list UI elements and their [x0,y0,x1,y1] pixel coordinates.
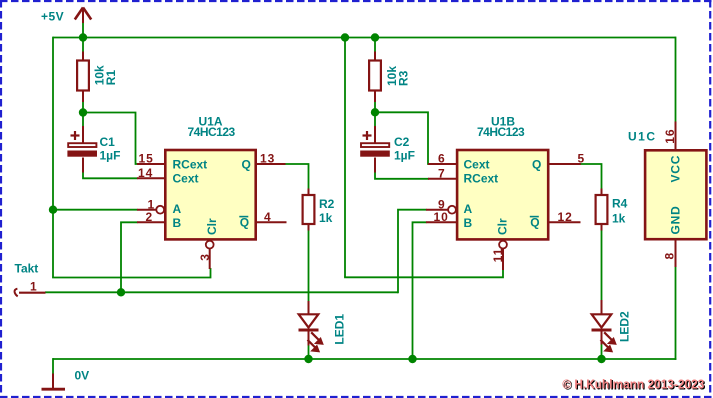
svg-text:7: 7 [438,166,445,180]
svg-text:U1C: U1C [628,130,657,144]
wire Clr net U1B [344,269,503,277]
ground 0V symbol [42,374,66,390]
svg-text:16: 16 [663,128,677,143]
svg-text:Q: Q [532,157,541,171]
svg-text:R3: R3 [396,70,410,86]
svg-text:GND: GND [669,205,683,234]
capacitor C2 [360,126,415,173]
pin 2 (B) U1A [137,210,165,224]
port Takt input pin 1 [14,280,45,297]
label +5V [41,10,64,24]
svg-text:12: 12 [558,210,573,224]
node LED2/0V junction [597,355,605,363]
node LED1/0V junction [304,355,312,363]
wire A input U1A to +5V rail [53,209,138,211]
wire node to C2 top [374,112,376,127]
pin 5 (Q) U1B [549,152,585,166]
node Takt/B junction [117,288,125,296]
pin 14 (Cext) U1A [137,166,165,180]
IC U1C power unit body [628,130,706,240]
pin 13 (Q) U1A [256,152,286,166]
op-amp U1B body [457,115,548,240]
svg-text:VCC: VCC [669,155,683,183]
svg-text:B: B [173,216,182,230]
svg-text:Cext: Cext [173,171,199,185]
label 0V [75,369,90,383]
svg-text:Takt: Takt [15,262,39,276]
svg-text:Q: Q [242,157,251,171]
wire LED2 to 0V rail [601,344,603,359]
svg-text:R4: R4 [612,197,628,211]
pin 11 (Clr) U1B [491,241,507,270]
pin 7 (RCext) U1B [428,166,457,180]
wire node to RCext pin 15 [83,113,138,165]
svg-text:1k: 1k [612,212,626,226]
svg-text:5: 5 [578,152,585,166]
svg-text:A: A [173,202,182,216]
node R3/C2 junction [371,108,379,116]
svg-text:LED1: LED1 [332,314,346,345]
wire B input U1B to 0V rail [413,222,427,359]
resistor R3 [369,52,410,103]
wire 0V bottom rail [53,358,676,360]
svg-text:74HC123: 74HC123 [188,125,236,139]
svg-text:+5V: +5V [41,10,64,24]
pin 3 (Clr) U1A [198,241,214,269]
wire R4 to LED2 [601,230,603,301]
svg-text:RCext: RCext [464,171,499,185]
svg-text:1: 1 [30,280,37,294]
node +5V/R1 junction [79,33,87,41]
svg-text:C2: C2 [394,135,410,149]
pin 9 (A) U1B [426,197,456,213]
pin 12 (Qbar) U1B [549,210,581,224]
svg-text:2: 2 [146,210,153,224]
pin 8 (GND) U1C [663,240,677,268]
svg-text:1µF: 1µF [100,149,121,163]
svg-text:R2: R2 [319,197,335,211]
resistor R2 [303,189,335,231]
wire R3 top stub [374,37,376,53]
node R1/C1 junction [79,108,87,116]
pin 6 (Cext) U1B [428,152,457,166]
node A-U1A junction [49,206,57,214]
op-amp U1A body [165,115,255,240]
svg-text:11: 11 [491,248,505,263]
pin 15 (RCext) U1A [137,152,165,166]
svg-text:© H.Kuhlmann 2013-2023: © H.Kuhlmann 2013-2023 [562,376,704,391]
svg-text:8: 8 [663,253,677,260]
pin 10 (B) U1B [426,210,457,224]
svg-text:C1: C1 [100,135,116,149]
svg-text:10: 10 [434,210,449,224]
wire C1 bottom to Cext pin 14 [83,172,138,179]
svg-text:74HC123: 74HC123 [477,125,525,139]
wire node to Cext pin 6 [375,112,429,164]
svg-text:B: B [464,216,473,230]
svg-text:A: A [464,202,473,216]
wire C2 bottom to RCext pin 7 [375,172,429,179]
svg-text:0V: 0V [75,369,90,383]
svg-text:RCext: RCext [173,157,208,171]
wire VCC drop to U1C pin 16 [675,37,677,122]
svg-text:Clr: Clr [496,218,510,235]
svg-text:6: 6 [438,152,445,166]
wire node to C1 top [82,113,84,128]
resistor R1 [77,52,118,103]
wire B input U1A to Takt [121,222,138,292]
wire R1 bottom to node [82,102,84,113]
wire R3 bottom to node [374,102,376,113]
svg-text:Cext: Cext [464,157,490,171]
wire left +5V branch (x=53) [52,37,54,278]
label Takt [15,262,39,276]
power +5V symbol [75,8,91,24]
pin 4 (Qbar) U1A [256,210,287,224]
wire Clr net U1A (y=277.5) [52,268,210,278]
pin 1 (A) U1A [137,197,164,213]
svg-text:1k: 1k [319,211,333,225]
svg-text:Clr: Clr [205,218,219,235]
wire 0V symbol stub [52,358,54,374]
wire LED1 to 0V rail [308,345,310,359]
wire +5V arrow to rail [82,23,84,53]
LED LED2 [592,300,632,352]
wire +5V top rail [53,37,676,39]
svg-text:13: 13 [260,152,275,166]
node R3 junction [371,33,379,41]
copyright watermark [562,376,705,392]
wire mid +5V drop (x=345) [344,37,346,278]
wire Q U1A to R2 [285,164,309,189]
svg-text:LED2: LED2 [618,311,632,342]
node B-U1B/0V junction [408,355,416,363]
node mid drop junction [341,33,349,41]
svg-text:15: 15 [139,152,154,166]
pin 16 (VCC) U1C [663,122,677,151]
svg-text:R1: R1 [104,70,118,86]
svg-text:4: 4 [264,210,271,224]
wire Takt to A input U1B [398,210,427,294]
LED LED1 [299,301,347,352]
resistor R4 [596,189,628,231]
capacitor C1 [67,126,120,173]
wire Q U1B to R4 [580,164,602,189]
svg-text:3: 3 [198,254,212,261]
wire Takt line [45,291,398,293]
svg-text:1µF: 1µF [394,149,415,163]
svg-text:14: 14 [138,166,153,180]
wire R2 to LED1 [308,230,310,302]
wire U1C pin 8 to 0V rail [675,267,677,360]
